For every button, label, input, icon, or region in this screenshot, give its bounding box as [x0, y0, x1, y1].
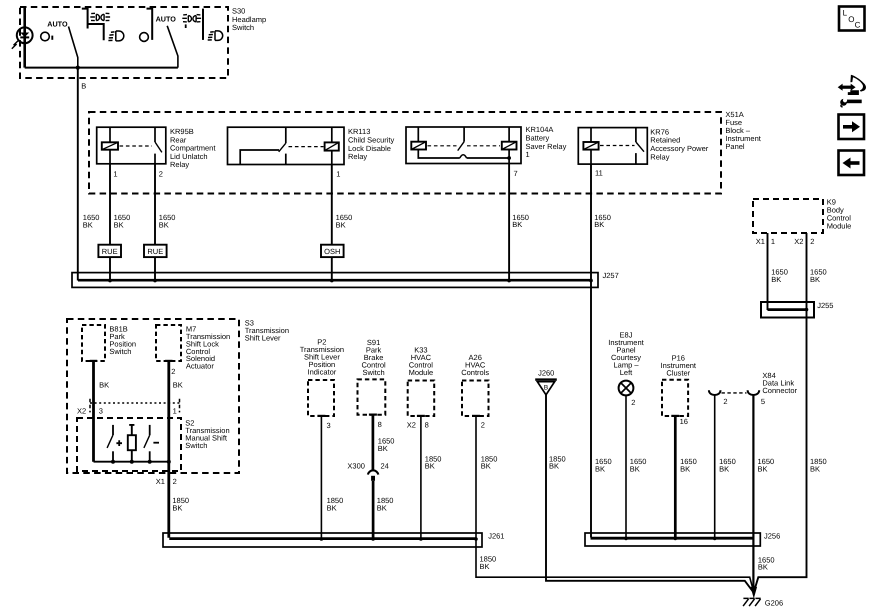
wire label 1650 BK (KR95B-1) [114, 213, 131, 229]
wire label 1650 BK (KR76 lower) [595, 457, 612, 473]
svg-text:1: 1 [336, 170, 340, 179]
S30 switch blade 1 [69, 27, 78, 68]
svg-text:X300: X300 [347, 461, 365, 470]
svg-text:X2: X2 [794, 237, 803, 246]
svg-text:Cluster: Cluster [666, 368, 690, 377]
svg-text:5: 5 [761, 397, 765, 406]
wire P2 to J261 [317, 415, 325, 417]
svg-text:BK: BK [549, 462, 559, 471]
svg-text:Panel: Panel [725, 142, 745, 151]
svg-text:BK: BK [758, 464, 768, 473]
svg-text:3: 3 [327, 421, 331, 430]
svg-text:3: 3 [99, 407, 103, 416]
wire label 1850 BK (P2) [327, 496, 344, 512]
svg-text:BK: BK [630, 464, 640, 473]
svg-text:BK: BK [594, 220, 604, 229]
ground reference J260 [535, 368, 557, 394]
wire X84-5 through J256 to ground [752, 395, 754, 592]
K33 pin X2-8 [407, 421, 429, 430]
svg-text:8: 8 [425, 421, 429, 430]
HVAC controls A26 [461, 353, 489, 416]
transmission shift lever S3 [67, 319, 289, 473]
wire X300 to J261 [372, 481, 375, 538]
svg-text:8: 8 [378, 420, 382, 429]
icon forward arrow [839, 115, 865, 140]
svg-text:B: B [544, 385, 549, 392]
svg-text:BK: BK [83, 221, 93, 230]
svg-text:Module: Module [409, 368, 434, 377]
svg-text:RUE: RUE [147, 247, 163, 256]
wire KR95B pin1 to J257 [109, 164, 111, 281]
svg-text:BK: BK [378, 444, 388, 453]
svg-text:OSH: OSH [324, 247, 340, 256]
svg-text:7: 7 [514, 169, 518, 178]
svg-text:BK: BK [377, 504, 387, 513]
shift lever position indicator P2 [300, 337, 344, 416]
svg-text:2: 2 [173, 477, 177, 486]
svg-text:C: C [855, 20, 861, 29]
svg-text:BK: BK [771, 275, 781, 284]
wire label 1650 BK (S30) [83, 213, 100, 229]
wire K9 X1-1 to J255 [767, 233, 769, 310]
wire label 1650 BK (P16) [680, 457, 697, 473]
wire label 1650 BK (X84-2) [719, 457, 736, 473]
svg-text:X1: X1 [756, 237, 765, 246]
relay KR113 [228, 127, 395, 164]
svg-text:Shift Lever: Shift Lever [245, 334, 281, 343]
svg-text:2: 2 [481, 421, 485, 430]
wire label 1650 BK (KR76 upper) [594, 213, 611, 229]
fuse block X51A - instrument panel [89, 110, 762, 193]
svg-text:X1: X1 [156, 477, 165, 486]
svg-text:J256: J256 [764, 532, 780, 541]
S30 parking lamp contact 1 [82, 9, 88, 29]
connector X2 (S3) [77, 399, 180, 416]
HVAC control module K33 [408, 345, 435, 416]
harness code RUE (1) [98, 245, 121, 257]
svg-text:J261: J261 [488, 531, 504, 540]
svg-text:2: 2 [631, 398, 635, 407]
relay KR104A [406, 125, 567, 163]
icon LOC box [839, 7, 865, 31]
wire KR104A pin7 to J257 [508, 164, 510, 281]
harness code OSH [321, 245, 344, 257]
svg-text:O: O [848, 15, 854, 24]
svg-text:AUTO: AUTO [47, 19, 68, 28]
svg-text:Relay: Relay [348, 152, 367, 161]
wire K9 X2-2 to ground [754, 233, 807, 592]
svg-text:BK: BK [512, 220, 522, 229]
harness code RUE (2) [144, 245, 167, 257]
svg-text:Controls: Controls [461, 368, 489, 377]
photocell (ambient light sensor) [12, 7, 33, 68]
wire M7 through S2 to J261 [165, 360, 172, 362]
relay KR76 [578, 127, 708, 164]
wire label 1850 BK (J260) [549, 454, 566, 470]
wire label 1850 BK (S2 out) [172, 496, 189, 512]
wire B81B to S2 [90, 360, 97, 362]
headlamp icon 1 [108, 31, 123, 41]
park position switch B81B [82, 325, 136, 361]
headlamp icon 2 [208, 31, 223, 41]
svg-text:2: 2 [810, 237, 814, 246]
svg-text:1: 1 [526, 150, 530, 159]
instrument cluster P16 [661, 353, 697, 416]
wire label 1650 BK (KR95B-2) [159, 213, 176, 229]
wire label 1650 BK (K9 X1) [771, 268, 788, 284]
svg-text:X2: X2 [407, 421, 416, 430]
park brake control switch S91 [358, 338, 387, 415]
svg-text:BK: BK [810, 275, 820, 284]
svg-text:BK: BK [173, 381, 183, 390]
wire KR95B pin2 to J257 [154, 164, 156, 281]
svg-text:2: 2 [159, 170, 163, 179]
svg-text:Actuator: Actuator [186, 362, 214, 371]
data link connector X84 [709, 371, 798, 395]
svg-text:Indicator: Indicator [308, 367, 337, 376]
wire label 1850 BK (S91 lower) [377, 496, 394, 512]
S30 common wire [25, 67, 178, 69]
junction S30 common [76, 66, 80, 70]
splice pack J255 [761, 302, 814, 318]
svg-text:BK: BK [425, 462, 435, 471]
wire label 1650 BK (J256 out) [758, 555, 775, 571]
S2 common rail [94, 461, 169, 463]
splice pack J261 [163, 533, 482, 547]
wire KR76 pin11 to J256 [590, 164, 592, 537]
svg-text:1: 1 [113, 170, 117, 179]
svg-text:BK: BK [172, 504, 182, 513]
svg-text:BK: BK [758, 563, 768, 572]
wire label 1650 BK (E8J) [630, 457, 647, 473]
wire K33 to J261 [417, 415, 425, 417]
wire label 1650 BK (KR104A) [512, 213, 529, 229]
wire label 1650 BK (S91) [378, 437, 395, 453]
icon service reference (hand with wrench) [838, 75, 866, 107]
wire label 1850 BK (J261 out) [480, 555, 497, 571]
K9 pin X1-1 [756, 237, 775, 246]
svg-text:BK: BK [336, 221, 346, 230]
svg-text:2: 2 [723, 397, 727, 406]
svg-text:Connector: Connector [762, 386, 797, 395]
svg-text:Switch: Switch [232, 23, 254, 32]
svg-text:B: B [81, 81, 86, 90]
wire label 1650 BK (KR113) [336, 213, 353, 229]
svg-text:BK: BK [481, 462, 491, 471]
svg-text:Switch: Switch [363, 368, 385, 377]
svg-text:BK: BK [680, 464, 690, 473]
wire label 1850 BK (A26) [481, 454, 498, 470]
S30 contact bar 3 [202, 9, 204, 40]
svg-text:BK: BK [719, 464, 729, 473]
shift lock actuator M7 [156, 325, 230, 371]
svg-text:J260: J260 [538, 368, 554, 377]
svg-text:BK: BK [480, 562, 490, 571]
wire label 1650 BK (K9 X2) [810, 268, 827, 284]
headlamp switch S30 [20, 7, 266, 79]
svg-text:1: 1 [771, 237, 775, 246]
wire KR113 pin1 to J257 [331, 165, 333, 281]
svg-text:2: 2 [171, 367, 175, 376]
svg-text:BK: BK [99, 381, 109, 390]
courtesy lamp E8J [608, 330, 644, 395]
svg-text:AUTO: AUTO [156, 14, 177, 23]
svg-text:1: 1 [173, 407, 177, 416]
splice pack J256 [585, 533, 760, 546]
svg-text:BK: BK [159, 221, 169, 230]
S30 indicator circle 1 [41, 32, 53, 41]
svg-text:J255: J255 [817, 301, 833, 310]
transmission manual shift switch S2 [77, 418, 230, 471]
svg-text:X2: X2 [77, 407, 86, 416]
S2 plus switch [107, 425, 122, 464]
svg-text:BK: BK [595, 464, 605, 473]
junction S2 rail right [167, 460, 171, 464]
splice pack J257 [72, 273, 598, 288]
svg-text:16: 16 [680, 417, 688, 426]
K9 pin X2-2 [794, 237, 814, 246]
icon back arrow [839, 151, 865, 176]
svg-text:BK: BK [327, 504, 337, 513]
svg-text:BK: BK [114, 221, 124, 230]
wire X84-2 to J256 [714, 395, 716, 538]
svg-text:J257: J257 [603, 271, 619, 280]
ground G206 [743, 598, 761, 606]
S30 switch blade 2 [167, 26, 178, 68]
S2 pin X1-2 [156, 477, 177, 486]
svg-text:G206: G206 [765, 599, 783, 608]
wire S30 B to J257 [77, 68, 79, 281]
wire label 1850 BK (K33) [425, 454, 442, 470]
parking lamps icon 2 [182, 15, 201, 28]
relay KR95B [97, 127, 217, 169]
svg-text:BK: BK [810, 464, 820, 473]
wire E8J to J256 [625, 395, 627, 537]
svg-text:Switch: Switch [185, 441, 207, 450]
svg-text:Switch: Switch [109, 347, 131, 356]
wire S91 to X300 [369, 414, 377, 416]
svg-text:L: L [843, 8, 848, 17]
wire label 1850 BK (K9 X2 lower) [810, 457, 827, 473]
svg-text:11: 11 [595, 169, 603, 178]
connector X300 pin 24 [347, 461, 388, 480]
svg-text:Relay: Relay [650, 152, 669, 161]
body control module K9 [753, 197, 851, 233]
A26 terminal tick [472, 415, 480, 417]
svg-text:24: 24 [381, 461, 389, 470]
wire label 1650 BK (X84-5) [758, 457, 775, 473]
parking lamps icon 1 [90, 13, 110, 20]
svg-text:Relay: Relay [170, 160, 189, 169]
S30 headlamp contact 1 [88, 24, 104, 40]
S30 indicator circle 2 [140, 33, 149, 42]
S2 minus switch [144, 425, 159, 464]
svg-text:Saver Relay: Saver Relay [526, 142, 567, 151]
svg-text:Module: Module [827, 221, 852, 230]
svg-text:RUE: RUE [102, 247, 118, 256]
wire A26 through J261 to ground [476, 416, 754, 592]
wire P16 to J256 [671, 415, 679, 417]
S2 resistor [128, 425, 136, 464]
S30 contact bar 2 [147, 9, 153, 40]
ground arrowhead [751, 587, 757, 597]
svg-text:Left: Left [620, 368, 633, 377]
wire J260 to ground [546, 395, 754, 593]
